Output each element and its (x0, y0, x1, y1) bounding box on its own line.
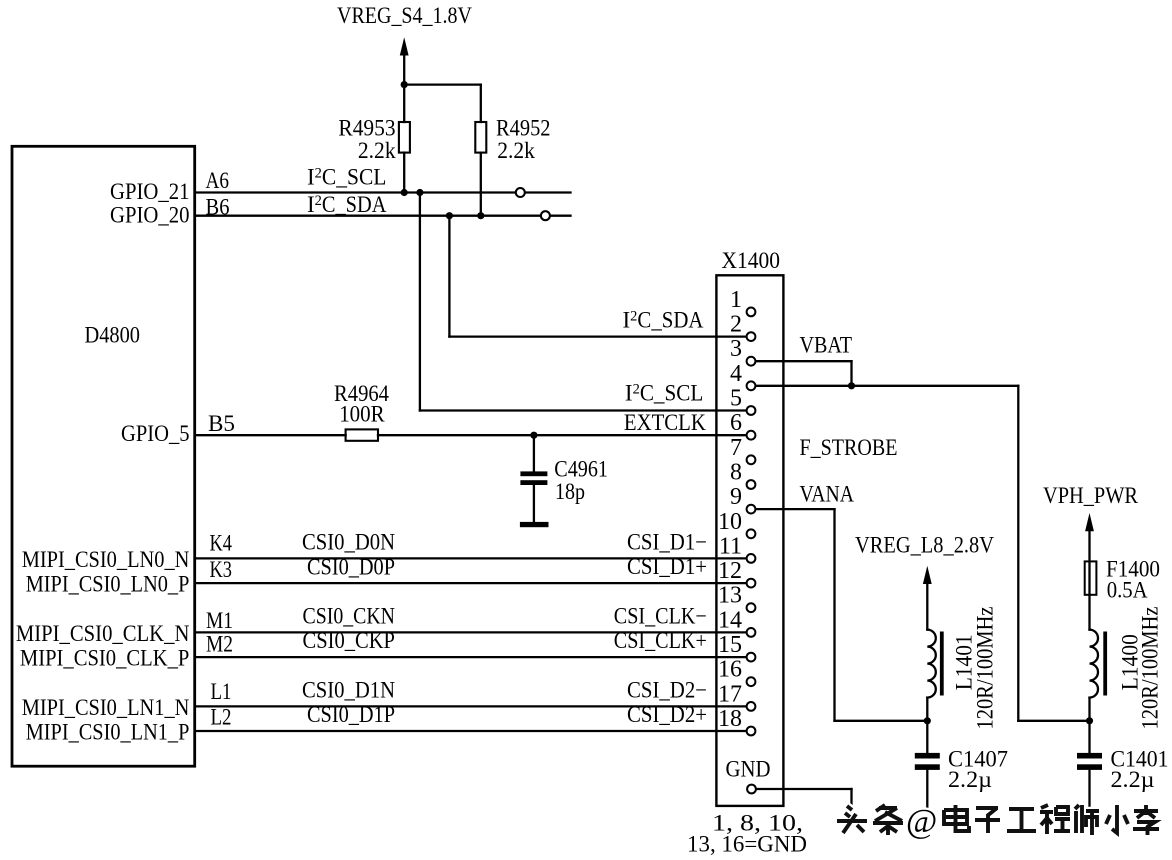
wire CSI0_CKP M2 to pin 15 (196, 656, 746, 658)
pin number M1 (206, 608, 233, 633)
pin name MIPI_CSI0_LN1_P (26, 719, 190, 744)
net label VPH_PWR (1043, 483, 1139, 508)
resistor R4964 (346, 429, 378, 440)
svg-text:VREG_S4_1.8V: VREG_S4_1.8V (337, 3, 472, 28)
pin number L2 (211, 705, 232, 730)
ground bar below C4961 (520, 522, 549, 527)
power symbol VREG_S4_1.8V arrow (400, 37, 409, 84)
svg-text:CSI_CLK+: CSI_CLK+ (614, 628, 707, 653)
power symbol VREG_L8_2.8V arrow (923, 566, 932, 630)
wire L1400 to junction (1088, 698, 1090, 753)
wire I2C_SDA from GPIO_20 (196, 215, 541, 217)
wire I2C_SCL stub right of test point (525, 191, 571, 193)
pin number B5 (208, 411, 235, 436)
watermark halo (837, 805, 1159, 835)
value label L1400 (1118, 634, 1143, 690)
net label CSI0_D0P (307, 555, 395, 580)
svg-text:17: 17 (718, 681, 742, 707)
svg-text:X1400: X1400 (722, 248, 781, 273)
net label I2C_SDA right (623, 308, 704, 333)
svg-text:13, 16=GND: 13, 16=GND (687, 832, 807, 857)
svg-text:MIPI_CSI0_CLK_P: MIPI_CSI0_CLK_P (20, 646, 190, 671)
pin name MIPI_CSI0_LN1_N (22, 695, 190, 720)
svg-text:0.5A: 0.5A (1107, 578, 1148, 603)
svg-text:@: @ (906, 803, 937, 840)
value label C4961 (554, 456, 608, 504)
svg-text:F_STROBE: F_STROBE (800, 435, 898, 460)
value label L1400 120R/100MHz (1138, 607, 1163, 730)
svg-text:K4: K4 (210, 530, 233, 555)
junction VBAT (848, 382, 855, 389)
svg-text:CSI0_CKN: CSI0_CKN (303, 603, 396, 628)
pin name GPIO_5 (121, 421, 190, 446)
svg-text:A6: A6 (206, 168, 230, 193)
svg-text:CSI0_CKP: CSI0_CKP (303, 628, 396, 653)
svg-text:D4800: D4800 (85, 322, 141, 347)
svg-text:2: 2 (730, 312, 742, 338)
inductor L1401 core bar (940, 632, 944, 696)
net label CSI_D2+ (627, 702, 707, 727)
net label I2C_SCL right (625, 380, 703, 405)
svg-text:VPH_PWR: VPH_PWR (1043, 483, 1139, 508)
pin name MIPI_CSI0_LN0_N (22, 547, 190, 572)
connector pin numbers 1-18 (718, 287, 742, 732)
svg-text:MIPI_CSI0_LN1_P: MIPI_CSI0_LN1_P (26, 719, 190, 744)
wire I2C_SCL from GPIO_21 (196, 191, 516, 193)
junction VBAT / C1401 (1086, 717, 1093, 724)
value label C1401 2.2u (1111, 746, 1169, 792)
watermark text 头条 @电子工程师小李 (837, 805, 1159, 835)
net label EXTCLK (624, 410, 706, 435)
net label CSI0_CKP (303, 628, 396, 653)
junction VREG_S4 rail (401, 81, 408, 88)
connector X1400 body (716, 275, 783, 806)
value label R4952 (496, 116, 551, 164)
net label CSI_CLK- (614, 603, 707, 628)
svg-text:B5: B5 (208, 411, 235, 436)
svg-text:GPIO_20: GPIO_20 (110, 203, 190, 228)
net label F_STROBE (800, 435, 898, 460)
svg-text:GND: GND (726, 757, 771, 782)
wire I2C_SDA to connector pin 2 (449, 335, 746, 337)
svg-text:18: 18 (718, 706, 742, 732)
svg-text:VBAT: VBAT (800, 332, 853, 357)
svg-text:C4961: C4961 (554, 456, 608, 481)
wire CSI0_D0N K4 to pin 11 (196, 557, 746, 559)
svg-text:CSI0_D0P: CSI0_D0P (307, 555, 395, 580)
svg-text:EXTCLK: EXTCLK (624, 410, 706, 435)
wire CSI0_CKN M1 to pin 14 (196, 631, 746, 633)
svg-text:4: 4 (730, 361, 742, 387)
svg-text:2.2µ: 2.2µ (948, 767, 992, 792)
svg-text:CSI_D2−: CSI_D2− (627, 677, 707, 702)
inductor L1400 core bar (1103, 632, 1107, 696)
svg-text:18p: 18p (555, 479, 585, 504)
inductor L1400 coil (1090, 630, 1099, 698)
test point open circle on I2C_SDA (541, 211, 550, 220)
svg-text:6: 6 (730, 410, 742, 436)
wire VANA from pin 9 to L1401 branch (756, 509, 927, 721)
wire EXTCLK from R4964 to connector pin 6 (378, 434, 746, 436)
net label CSI0_CKN (303, 603, 396, 628)
svg-text:R4953: R4953 (338, 116, 395, 141)
capacitor C1401 (1077, 753, 1102, 815)
wire L1401 to junction (926, 698, 928, 753)
wire I2C_SDA vertical down to pin 2 row (448, 216, 450, 337)
net label VBAT (800, 332, 853, 357)
resistor R4952 (475, 85, 486, 216)
svg-text:12: 12 (718, 558, 742, 584)
connector pin circles 1-18 (747, 308, 756, 736)
svg-text:MIPI_CSI0_CLK_N: MIPI_CSI0_CLK_N (16, 621, 190, 646)
wire VBAT from pin 3 (756, 361, 852, 386)
wire GPIO_5 to R4964 (196, 434, 346, 436)
net label I2C_SCL left (307, 165, 386, 190)
svg-text:13: 13 (718, 583, 742, 609)
junction EXTCLK at C4961 (530, 432, 537, 439)
pin name GPIO_21 (110, 179, 190, 204)
junction VANA / C1407 (924, 717, 931, 724)
svg-text:CSI0_D1P: CSI0_D1P (307, 702, 395, 727)
svg-text:2.2k: 2.2k (497, 138, 535, 163)
svg-text:2.2k: 2.2k (358, 138, 396, 163)
svg-text:CSI0_D0N: CSI0_D0N (302, 529, 395, 554)
IC D4800 body (12, 146, 195, 766)
part label D4800 (85, 322, 141, 347)
wire I2C_SCL vertical down to pin 5 row (419, 193, 421, 411)
wire CSI0_D1P L2 to pin 18 (196, 730, 746, 732)
junction I2C_SCL at R4953 (401, 189, 408, 196)
connector GND pin circle (747, 785, 756, 794)
svg-text:CSI_CLK−: CSI_CLK− (614, 603, 707, 628)
wire VREG_S4 rail horizontal (404, 83, 481, 85)
capacitor C1407 (915, 753, 940, 812)
note 1, 8, 10, 13, 16=GND (687, 811, 807, 857)
wire GND pin (757, 789, 852, 809)
power symbol VPH_PWR arrow (1085, 513, 1094, 630)
svg-text:2.2µ: 2.2µ (1111, 767, 1155, 792)
wire CSI0_D1N L1 to pin 17 (196, 705, 746, 707)
svg-text:7: 7 (730, 435, 742, 461)
svg-text:L2: L2 (211, 705, 232, 730)
svg-text:CSI_D1−: CSI_D1− (627, 529, 707, 554)
svg-text:11: 11 (719, 533, 742, 559)
svg-text:L1: L1 (211, 679, 232, 704)
svg-text:B6: B6 (206, 194, 230, 219)
capacitor C4961 (520, 435, 547, 522)
value label R4964 (334, 381, 389, 426)
net label CSI0_D1P (307, 702, 395, 727)
pin number K4 (210, 530, 233, 555)
inductor L1401 coil (927, 630, 936, 698)
net label CSI_D1+ (627, 554, 707, 579)
svg-text:MIPI_CSI0_LN0_P: MIPI_CSI0_LN0_P (26, 572, 190, 597)
wire I2C_SCL to connector pin 5 (420, 409, 746, 411)
net label CSI_CLK+ (614, 628, 707, 653)
svg-text:M1: M1 (206, 608, 233, 633)
net label VANA (800, 481, 855, 506)
net label VREG_S4_1.8V (337, 3, 472, 28)
svg-text:CSI0_D1N: CSI0_D1N (302, 677, 395, 702)
svg-text:VANA: VANA (800, 481, 855, 506)
net label VREG_L8_2.8V (855, 533, 994, 558)
pin name MIPI_CSI0_LN0_P (26, 572, 190, 597)
value label L1401 120R/100MHz (973, 607, 998, 730)
svg-text:120R/100MHz: 120R/100MHz (1138, 607, 1163, 730)
resistor R4953 (399, 85, 410, 193)
svg-text:GPIO_21: GPIO_21 (110, 179, 190, 204)
net label I2C_SDA left (307, 192, 387, 217)
pin name MIPI_CSI0_CLK_P (20, 646, 190, 671)
net label CSI0_D0N (302, 529, 395, 554)
test point open circle on I2C_SCL (516, 188, 525, 197)
svg-text:3: 3 (730, 336, 742, 362)
net label CSI_D2- (627, 677, 707, 702)
pin name MIPI_CSI0_CLK_N (16, 621, 190, 646)
svg-text:1: 1 (730, 287, 742, 313)
svg-text:CSI_D2+: CSI_D2+ (627, 702, 707, 727)
part label X1400 (722, 248, 781, 273)
value label C1407 2.2u (948, 746, 1008, 792)
net label CSI_D1- (627, 529, 707, 554)
svg-text:14: 14 (718, 607, 742, 633)
junction I2C_SCL branch to pin 5 (416, 189, 423, 196)
wire VBAT from pin 4 to L1400 branch (756, 386, 1090, 721)
pin name GND (726, 757, 771, 782)
fuse F1400 (1085, 561, 1097, 594)
value label L1401 (952, 634, 977, 690)
pin number M2 (206, 632, 233, 657)
watermark at-sign (906, 803, 937, 840)
value label R4953 (338, 116, 396, 164)
junction I2C_SDA at R4952 (477, 212, 484, 219)
svg-text:K3: K3 (210, 557, 233, 582)
wire CSI0_D0P K3 to pin 12 (196, 582, 746, 584)
svg-text:GPIO_5: GPIO_5 (121, 421, 190, 446)
value label F1400 0.5A (1106, 556, 1160, 602)
net label CSI0_D1N (302, 677, 395, 702)
svg-text:16: 16 (718, 657, 742, 683)
svg-text:15: 15 (718, 632, 742, 658)
svg-text:VREG_L8_2.8V: VREG_L8_2.8V (855, 533, 994, 558)
svg-text:120R/100MHz: 120R/100MHz (973, 607, 998, 730)
pin name GPIO_20 (110, 203, 190, 228)
svg-text:8: 8 (730, 460, 742, 486)
svg-text:10: 10 (718, 509, 742, 535)
svg-text:9: 9 (730, 484, 742, 510)
svg-text:5: 5 (730, 386, 742, 412)
svg-text:CSI_D1+: CSI_D1+ (627, 554, 707, 579)
svg-text:MIPI_CSI0_LN0_N: MIPI_CSI0_LN0_N (22, 547, 190, 572)
pin number A6 (206, 168, 230, 193)
junction I2C_SDA branch to pin 2 (446, 212, 453, 219)
pin number K3 (210, 557, 233, 582)
pin number B6 (206, 194, 230, 219)
svg-text:100R: 100R (339, 401, 385, 426)
svg-text:MIPI_CSI0_LN1_N: MIPI_CSI0_LN1_N (22, 695, 190, 720)
pin number L1 (211, 679, 232, 704)
svg-text:R4952: R4952 (496, 116, 551, 141)
svg-text:M2: M2 (206, 632, 233, 657)
wire I2C_SDA stub right of test point (550, 215, 571, 217)
